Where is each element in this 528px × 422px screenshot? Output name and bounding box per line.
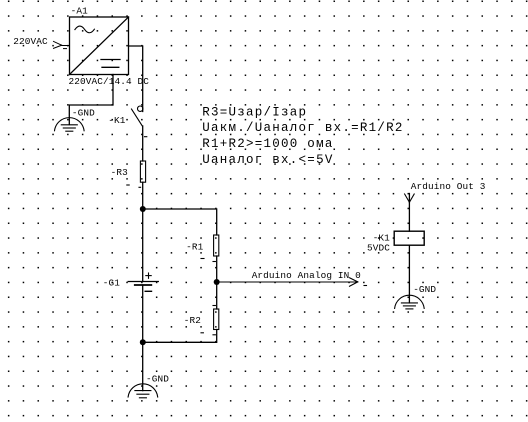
junction node B (214, 279, 220, 285)
svg-text:220VAC/14.4 DC: 220VAC/14.4 DC (69, 76, 150, 87)
wire A1 bottom pin to ground (69, 75, 113, 125)
wire relay coil K1 to ground GND2 (408, 245, 410, 303)
formula text block (202, 105, 403, 167)
ground GND2 symbol (395, 295, 425, 309)
wire node A to battery G1 (142, 209, 144, 281)
ground GND3 symbol (128, 384, 158, 398)
ground GND1 symbol (55, 118, 85, 132)
wire node C to ground GND3 (142, 342, 144, 390)
wire switch to R3 (142, 126, 144, 161)
svg-text:-GND: -GND (72, 107, 95, 118)
svg-text:-G1: -G1 (103, 278, 120, 289)
Arduino Out 3 arrow (405, 194, 415, 202)
resistor R3 (127, 161, 146, 187)
220VAC input arrow (54, 41, 70, 48)
svg-text:-R3: -R3 (111, 167, 128, 178)
svg-text:R1+R2>=1000 ома: R1+R2>=1000 ома (202, 137, 333, 151)
svg-text:-R1: -R1 (186, 241, 203, 252)
svg-text:Arduino Out 3: Arduino Out 3 (411, 181, 486, 192)
wire R3 to node A (142, 182, 144, 209)
junction node C (140, 339, 146, 345)
svg-text:Uакм./Uаналог вх.=R1/R2: Uакм./Uаналог вх.=R1/R2 (202, 121, 403, 135)
wire battery G1 to node C (142, 285, 144, 342)
svg-text:-R2: -R2 (184, 315, 201, 326)
switch K1 (132, 106, 147, 137)
svg-text:5VDC: 5VDC (367, 243, 390, 254)
svg-text:220VAC: 220VAC (13, 36, 48, 47)
wire A1 right pin to switch (129, 46, 143, 112)
wire Arduino Out 3 to relay coil K1 (408, 194, 410, 232)
junction node A (140, 206, 146, 212)
relay coil K1 body (394, 231, 424, 245)
power supply unit A1 body (70, 17, 129, 75)
svg-text:-GND: -GND (146, 374, 169, 385)
svg-text:-A1: -A1 (71, 6, 88, 17)
svg-text:R3=Uзар/Iзар: R3=Uзар/Iзар (202, 105, 307, 119)
svg-text:Arduino Analog IN 0: Arduino Analog IN 0 (252, 270, 361, 281)
wire node B to Arduino Analog IN 0 arrow (217, 278, 367, 286)
resistor R2 (201, 306, 219, 335)
wire R2 to node C (143, 330, 217, 343)
wire R1 to node B (216, 256, 218, 282)
battery G1 (128, 273, 158, 291)
resistor R1 (201, 235, 219, 262)
svg-text:-K1: -K1 (108, 115, 125, 126)
wire node B to R2 (216, 282, 218, 309)
svg-text:Uаналог вх.<=5V: Uаналог вх.<=5V (202, 153, 333, 167)
svg-text:-GND: -GND (413, 284, 436, 295)
wire node A to R1 (143, 209, 217, 235)
